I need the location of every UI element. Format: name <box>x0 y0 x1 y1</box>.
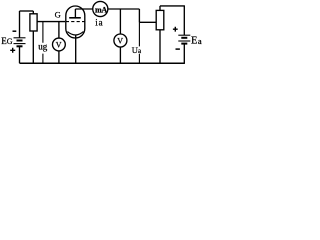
wire bottom rail <box>20 62 185 64</box>
wire right pot top stub <box>159 6 161 10</box>
plus sign EG <box>10 48 15 53</box>
grid (dashed) <box>66 21 85 23</box>
wire left pot bottom stub <box>32 31 34 63</box>
wire cathode lead <box>75 35 77 64</box>
wire anode rail corner down <box>138 9 140 22</box>
svg-text:V: V <box>117 36 123 45</box>
potentiometer P1 <box>30 14 37 31</box>
cathode <box>67 32 83 35</box>
wire V(ug) top lead <box>58 22 60 38</box>
wire Ea bottom lead <box>183 44 185 64</box>
battery EG <box>14 38 26 47</box>
svg-text:mA: mA <box>95 5 107 14</box>
voltmeter V (Ua) <box>114 34 127 47</box>
minus sign EG <box>13 30 17 32</box>
svg-text:ia: ia <box>95 18 103 28</box>
wire anode lead <box>74 9 76 18</box>
svg-text:EG: EG <box>1 36 13 46</box>
svg-text:Ea: Ea <box>191 36 202 47</box>
anode plate <box>69 17 81 19</box>
wire EG top lead <box>19 11 21 38</box>
wire Ea top lead <box>183 6 185 35</box>
wire right wiper <box>139 21 156 23</box>
wire left pot top stub <box>32 11 34 14</box>
wire V(ug) bottom lead <box>58 51 60 63</box>
wire anode rail left <box>75 8 92 10</box>
wire EG bottom lead <box>19 46 21 63</box>
triode envelope <box>66 6 85 38</box>
wire right pot bottom stub <box>159 30 161 63</box>
svg-text:ug: ug <box>38 42 48 52</box>
svg-text:V: V <box>56 40 62 49</box>
plus sign Ea <box>173 27 178 32</box>
wire top-right rail <box>160 5 185 7</box>
battery Ea <box>178 35 190 43</box>
svg-text:Ua: Ua <box>132 45 142 55</box>
wire V(Ua) bottom lead <box>119 47 121 63</box>
wire wiper to grid <box>37 21 65 23</box>
svg-text:G: G <box>55 9 61 19</box>
voltage arrow ug <box>42 22 44 64</box>
voltmeter V (ug) <box>53 38 66 51</box>
wire top-left rail <box>20 10 34 12</box>
voltage arrow Ua <box>138 22 140 63</box>
wire anode rail right <box>108 8 140 10</box>
minus sign Ea <box>176 48 180 50</box>
potentiometer P2 <box>156 10 164 29</box>
ammeter mA <box>93 1 108 16</box>
wire V(Ua) top lead <box>119 9 121 34</box>
